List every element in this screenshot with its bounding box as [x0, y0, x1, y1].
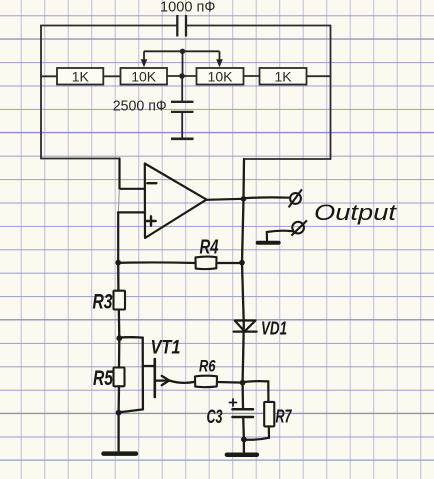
- wire: resistor row leads: [41, 75, 331, 77]
- junction at output node: [241, 196, 247, 202]
- svg-text:R3: R3: [93, 291, 113, 314]
- wire: gate loop vertical: [142, 338, 144, 410]
- resistor 10K (right): [197, 68, 244, 85]
- ground (right bus): [227, 452, 257, 457]
- wire: right bus (from twin-T bottom to output node): [242, 159, 245, 199]
- wiper wire over the two 10K resistors: [144, 51, 220, 60]
- wire: non-inverting input stub: [118, 212, 145, 262]
- wire: output node to top terminal: [244, 196, 290, 199]
- wire: C3 to bottom junction: [242, 417, 245, 440]
- junction right bus / R4: [239, 260, 245, 266]
- svg-text:R5: R5: [93, 367, 113, 390]
- wire: bottom-left rail to inverting input bus: [41, 158, 120, 160]
- wire: bottom terminal to its ground: [267, 231, 293, 241]
- svg-text:Output: Output: [314, 200, 398, 225]
- resistor R6: [195, 376, 217, 387]
- wire: R4 right lead: [217, 262, 243, 264]
- junction below R5: [116, 410, 122, 416]
- wire: left bus R4 node to R3: [117, 263, 120, 291]
- transistor VT1: [119, 337, 195, 412]
- ground (output): [258, 241, 279, 245]
- wire: node to R7 top: [243, 381, 269, 402]
- wire: node to C3: [241, 383, 244, 409]
- wire: wiper junction down to resistor row: [182, 51, 184, 76]
- output terminal (bottom): [291, 220, 307, 235]
- wire: inverting input stub from twin-T: [120, 159, 145, 190]
- wire: twin-T right edge: [330, 26, 332, 160]
- wire: bottom-right rail from output bus: [244, 158, 331, 160]
- wire: R7 bottom to junction: [244, 426, 269, 439]
- wire: top rail left segment: [41, 25, 176, 27]
- junction left bus / R4: [115, 260, 121, 266]
- VT1 gate bar: [154, 359, 157, 397]
- svg-text:R6: R6: [199, 358, 216, 376]
- svg-text:1K: 1K: [72, 68, 90, 84]
- svg-text:1K: 1K: [274, 68, 292, 84]
- wire: gate loop bottom to R5 node: [119, 409, 143, 412]
- C3 plus sign: [230, 399, 237, 406]
- wire: R5 top lead: [118, 338, 121, 367]
- wire: R4 left lead: [118, 261, 195, 264]
- VT1 gate stub: [143, 365, 155, 367]
- junction C3/R7 bottom: [241, 437, 247, 443]
- svg-text:2500 пФ: 2500 пФ: [113, 99, 167, 115]
- ground (2500 пФ): [171, 138, 194, 141]
- wire: twin-T left edge: [40, 26, 42, 159]
- wire: right bus R4 node through VD1 to R6 node: [242, 263, 244, 383]
- junction R3/R5/VT1 gate: [116, 335, 122, 341]
- svg-text:VT1: VT1: [151, 338, 181, 359]
- junction R6/C3/R7 node: [240, 380, 246, 386]
- wire: bottom junction to ground: [243, 440, 245, 453]
- svg-text:VD1: VD1: [261, 319, 287, 339]
- junction between the two 10K resistors: [179, 73, 185, 79]
- ground (left bus): [104, 451, 137, 456]
- wire: op-amp output to right bus: [207, 199, 244, 200]
- wiper arrow onto 10K (left): [141, 59, 148, 67]
- svg-text:10K: 10K: [131, 68, 157, 84]
- resistor 1K (left): [57, 68, 103, 85]
- output terminal (top): [289, 189, 302, 207]
- faint wire segment on left bus: [118, 189, 119, 212]
- wire: 2500 пФ to ground: [181, 112, 183, 138]
- junction on wiper wire: [180, 49, 185, 54]
- wire: R5 bottom lead: [117, 386, 120, 412]
- resistor 1K (right): [260, 68, 307, 85]
- wire: R6 right lead: [217, 381, 243, 384]
- resistor R4: [196, 257, 217, 270]
- capacitor C3: [233, 409, 254, 417]
- resistor R3: [114, 291, 126, 310]
- wire: VT1 to R6: [169, 381, 195, 383]
- svg-text:R4: R4: [200, 237, 219, 259]
- wire: junction down to 2500 пФ: [181, 76, 183, 101]
- diode VD1: [234, 321, 257, 332]
- svg-text:10K: 10K: [208, 68, 234, 84]
- resistor R5: [114, 368, 125, 387]
- svg-text:1000 пФ: 1000 пФ: [160, 0, 216, 15]
- svg-text:R7: R7: [276, 406, 293, 426]
- op-amp U1: [145, 164, 207, 239]
- wire: R3 to R5 node: [118, 310, 121, 339]
- wiper arrow onto 10K (right): [216, 59, 223, 67]
- wire: right bus output node to R4 node: [242, 199, 244, 263]
- wire: left bus to ground: [117, 413, 119, 451]
- resistor R7: [264, 402, 274, 427]
- resistor 10K (left): [121, 68, 168, 85]
- wire: top rail right segment: [187, 25, 331, 27]
- wire: gate loop top: [119, 336, 142, 339]
- svg-text:C3: C3: [207, 407, 223, 428]
- capacitor 1000 пФ: [177, 15, 186, 37]
- capacitor 2500 пФ: [171, 102, 194, 112]
- VT1 channel with arrow: [155, 379, 169, 381]
